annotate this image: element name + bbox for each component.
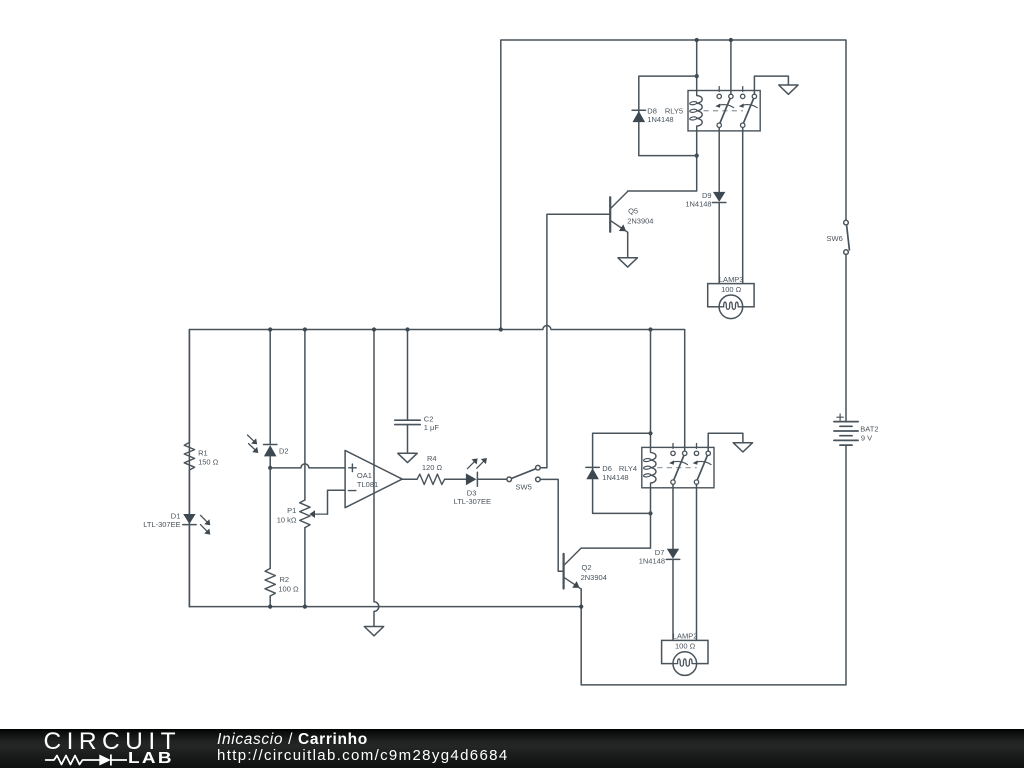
wire R1 to D1 [188, 470, 190, 514]
P1 wiper arrow to op-amp inverting input [315, 513, 328, 515]
potentiometer P1 [300, 500, 310, 528]
svg-text:100 Ω: 100 Ω [721, 285, 742, 294]
wire D6 snubber loop [593, 433, 651, 513]
wire P1 column top [304, 330, 306, 501]
svg-text:RLY5: RLY5 [665, 106, 683, 115]
wire SW5 top throw stub [540, 467, 547, 469]
svg-text:1N4148: 1N4148 [647, 115, 673, 124]
wire RLY4 pole1 to D7 [672, 484, 674, 549]
switch SW5 SPDT [511, 469, 536, 479]
wire op-amp power rail through body [374, 330, 379, 627]
CircuitLab logo resistor-diode glyph [40, 752, 170, 768]
resistor R1 [184, 442, 194, 470]
wire noninverting input from D2 junction with hop over P1 [270, 464, 345, 468]
wire D2 column top [269, 330, 271, 445]
diode D9 1N4148 [713, 192, 725, 202]
node mid bus P1 [303, 327, 307, 331]
photodiode D2 [264, 444, 277, 446]
node mid bus RLY4 coil [648, 327, 652, 331]
lamp LAMP2 100ohm [662, 640, 708, 663]
ground RLY5 contact [779, 85, 798, 94]
svg-text:R1: R1 [198, 449, 208, 458]
node D8 top junction [695, 74, 699, 78]
transistor Q2 2N3904 [562, 554, 564, 589]
wire RLY5 coil bottom to Q5 collector [628, 131, 697, 191]
wire D3 to SW5 [477, 478, 507, 480]
node D6 bottom junction [648, 511, 652, 515]
wire D8 snubber loop [639, 76, 697, 156]
LED D1 LTL-307EE [183, 514, 195, 524]
svg-text:D8: D8 [647, 106, 657, 115]
diode D7 1N4148 [667, 549, 679, 559]
lamp LAMP3 100ohm [708, 284, 754, 307]
svg-text:9 V: 9 V [861, 433, 872, 442]
svg-text:100 Ω: 100 Ω [278, 584, 299, 593]
wire top bus V+ rail [501, 40, 846, 330]
svg-text:OA1: OA1 [357, 471, 372, 480]
wire R4 to D3 [445, 478, 466, 480]
svg-text:SW5: SW5 [516, 483, 532, 492]
svg-text:LTL-307EE: LTL-307EE [454, 497, 491, 506]
svg-text:Q5: Q5 [628, 206, 638, 215]
wire bottom bus right / battery negative return [581, 445, 846, 685]
wire bottom bus left [189, 606, 581, 608]
wire RLY5 NO throw to ground [754, 76, 788, 94]
footer url [217, 747, 509, 764]
svg-text:2N3904: 2N3904 [581, 573, 607, 582]
wire Q5 base from SW5 top throw [547, 214, 609, 467]
wire RLY4 NO throw to ground [708, 433, 743, 451]
svg-text:1N4148: 1N4148 [602, 473, 628, 482]
wire R1 column top [188, 330, 190, 443]
svg-text:LTL-307EE: LTL-307EE [143, 520, 180, 529]
switch SW6 SPST [847, 225, 850, 250]
node bottom bus P1 [303, 605, 307, 609]
ground op-amp negative supply [364, 627, 383, 636]
resistor R2 [265, 568, 275, 596]
svg-text:C2: C2 [424, 415, 434, 424]
svg-text:R4: R4 [427, 454, 437, 463]
wire RLY5 pole1 to D9 [718, 128, 720, 192]
svg-text:Q2: Q2 [582, 563, 592, 572]
svg-text:1N4148: 1N4148 [639, 556, 665, 565]
ground RLY4 contact [733, 443, 752, 452]
svg-text:RLY4: RLY4 [619, 464, 637, 473]
wire D1 to bottom bus [188, 525, 190, 607]
svg-text:100 Ω: 100 Ω [675, 642, 696, 651]
svg-text:D2: D2 [279, 446, 289, 455]
node top bus RLY5 coil [695, 38, 699, 42]
svg-text:2N3904: 2N3904 [627, 217, 653, 226]
diode D8 1N4148 flyback [632, 109, 645, 111]
svg-text:150 Ω: 150 Ω [198, 457, 219, 466]
ground Q5 emitter [618, 258, 637, 267]
node top bus RLY5 pole [729, 38, 733, 42]
svg-text:LAMP3: LAMP3 [719, 275, 744, 284]
wire D7 to LAMP2 [672, 560, 674, 641]
wire RLY4 pole2 to LAMP2 [696, 484, 698, 640]
ground C2 [398, 453, 417, 462]
transistor Q5 2N3904 [609, 197, 611, 232]
wire RLY5 coil feed from top bus [696, 40, 698, 91]
wire RLY5 pole c2 feed from top bus [730, 40, 732, 94]
wire SW6 to battery [845, 254, 847, 421]
svg-text:R2: R2 [280, 575, 290, 584]
svg-text:D6: D6 [602, 464, 612, 473]
node D2 R2 opamp junction [268, 466, 272, 470]
wire C2 from mid bus [407, 330, 409, 420]
battery BAT2 9V [834, 421, 858, 423]
svg-text:P1: P1 [287, 506, 296, 515]
node mid bus D2 [268, 327, 272, 331]
footer bar [0, 729, 1024, 768]
wire RLY4 coil bottom to Q2 collector [581, 488, 650, 548]
node mid bus to top rail [499, 327, 503, 331]
svg-text:120 Ω: 120 Ω [422, 463, 443, 472]
relay RLY4 DPDT [642, 447, 714, 487]
node bottom bus R2 [268, 605, 272, 609]
svg-text:BAT2: BAT2 [860, 425, 878, 434]
svg-text:10 kΩ: 10 kΩ [277, 515, 297, 524]
wire P1 to bottom bus [304, 528, 306, 607]
node mid bus op-amp supply [372, 327, 376, 331]
wire RLY5 pole2 to LAMP3 [742, 128, 744, 284]
LED D3 LTL-307EE [466, 473, 477, 485]
svg-text:LAMP2: LAMP2 [673, 632, 698, 641]
wire SW5 bottom throw to Q2 base [540, 479, 562, 571]
wire C2 to ground [407, 425, 409, 453]
svg-text:1N4148: 1N4148 [685, 199, 711, 208]
node mid bus C2 [405, 327, 409, 331]
svg-text:SW6: SW6 [827, 234, 843, 243]
wire op-amp output to R4 [402, 478, 417, 480]
capacitor C2 1uF [395, 419, 420, 421]
node D6 top junction [648, 431, 652, 435]
wire RLY4 coil feed [650, 330, 652, 448]
footer title Inicascio / Carrinho [217, 731, 368, 749]
wire junction to R2 [269, 468, 271, 569]
wire R2 to bottom bus [269, 596, 271, 607]
node D8 bottom junction [695, 154, 699, 158]
node Q2 emitter bottom bus junction [579, 605, 583, 609]
relay RLY5 DPDT [688, 91, 760, 131]
CircuitLab logo text CIRCUIT [44, 728, 182, 756]
CircuitLab logo text LAB [128, 750, 174, 768]
wire D2 to junction [269, 456, 271, 468]
wire mid bus with hop over SW5-Q5 line [189, 326, 684, 607]
wire D9 to LAMP3 [718, 203, 720, 284]
wire Q5 emitter to ground [627, 232, 629, 258]
resistor R4 [417, 474, 445, 484]
svg-text:1 μF: 1 μF [424, 423, 440, 432]
svg-text:TL081: TL081 [357, 480, 378, 489]
op-amp OA1 TL081 [345, 450, 402, 507]
diode D6 1N4148 flyback [586, 466, 599, 468]
